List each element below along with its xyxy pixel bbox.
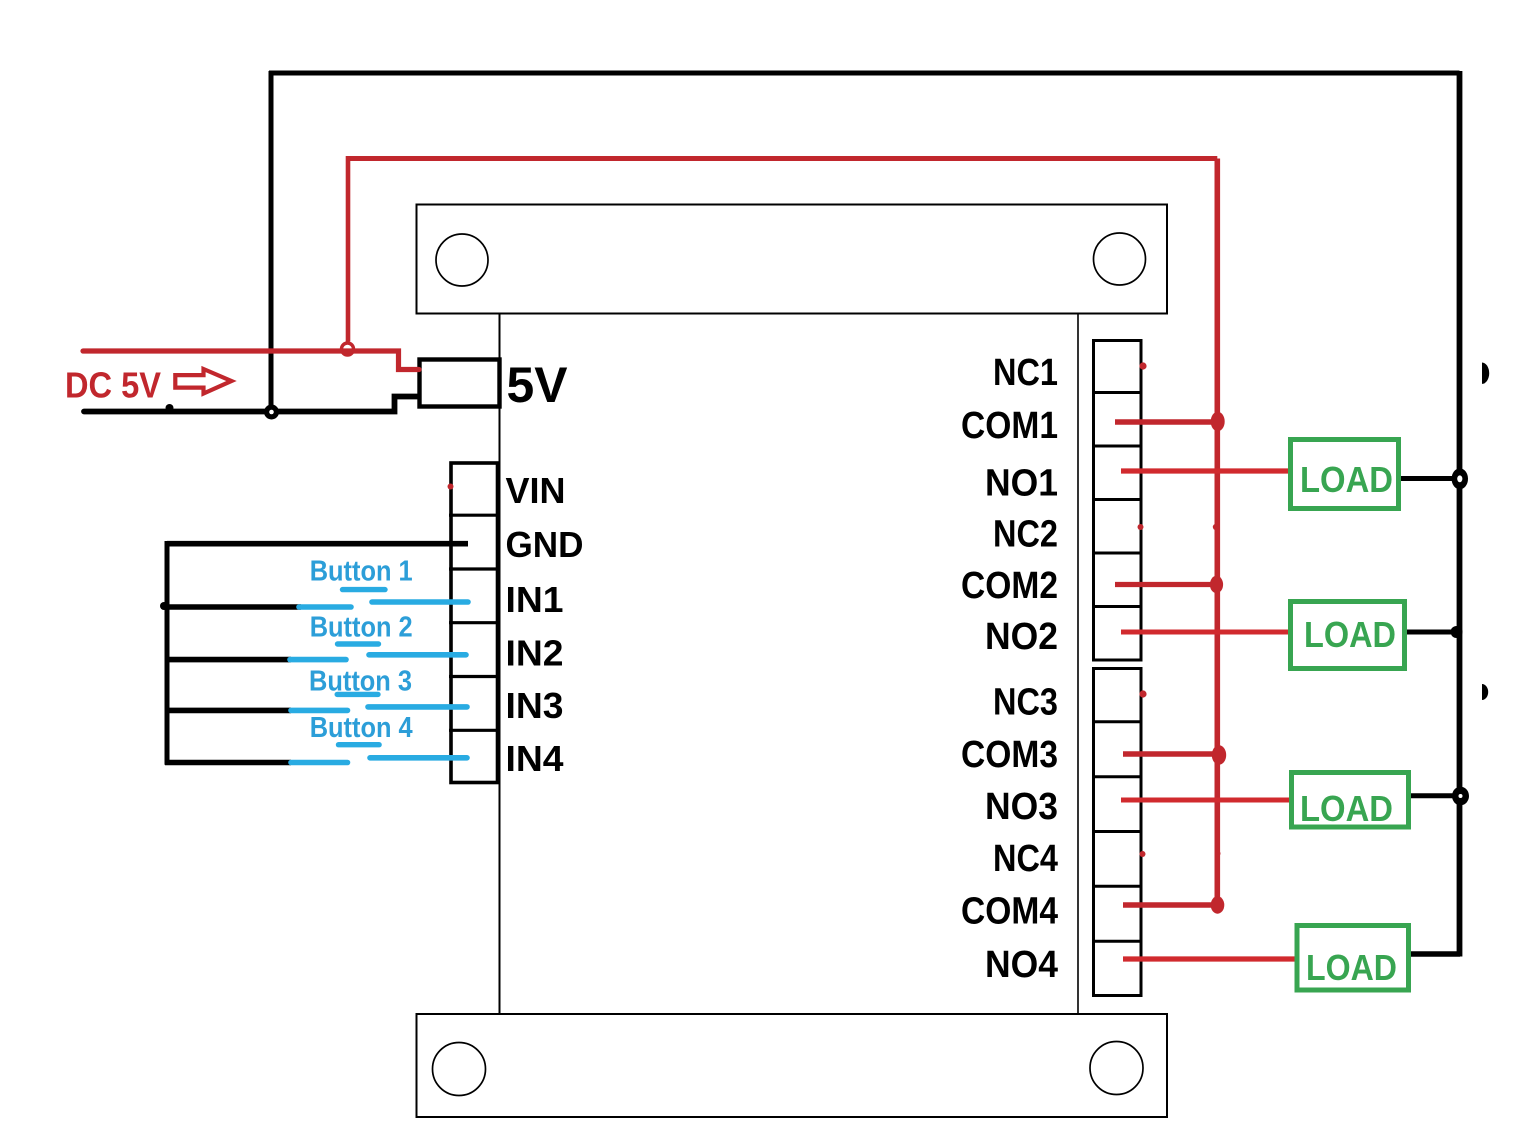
svg-text:NC2: NC2 — [993, 514, 1058, 556]
svg-text:Button 3: Button 3 — [309, 665, 412, 697]
svg-text:LOAD: LOAD — [1300, 459, 1393, 500]
svg-text:NO3: NO3 — [985, 786, 1058, 828]
svg-text:GND: GND — [506, 524, 584, 565]
svg-text:5V: 5V — [507, 357, 569, 413]
svg-text:IN1: IN1 — [506, 579, 564, 620]
svg-text:IN4: IN4 — [506, 738, 564, 779]
svg-text:NO4: NO4 — [985, 944, 1058, 986]
svg-text:COM4: COM4 — [961, 891, 1058, 933]
svg-text:LOAD: LOAD — [1304, 614, 1396, 655]
svg-text:COM1: COM1 — [961, 405, 1058, 447]
svg-text:COM3: COM3 — [961, 734, 1058, 776]
svg-text:NO1: NO1 — [985, 462, 1058, 504]
svg-text:IN2: IN2 — [506, 633, 564, 674]
svg-text:Button 4: Button 4 — [310, 712, 413, 744]
svg-text:VIN: VIN — [506, 470, 566, 511]
svg-text:IN3: IN3 — [506, 685, 564, 726]
svg-text:NO2: NO2 — [985, 616, 1058, 658]
svg-text:NC4: NC4 — [993, 838, 1058, 880]
svg-text:Button 2: Button 2 — [310, 611, 413, 643]
svg-text:Button 1: Button 1 — [310, 555, 413, 587]
svg-text:NC3: NC3 — [993, 682, 1058, 724]
svg-text:COM2: COM2 — [961, 565, 1058, 607]
svg-text:LOAD: LOAD — [1300, 788, 1393, 829]
svg-text:NC1: NC1 — [993, 352, 1058, 394]
svg-text:DC 5V: DC 5V — [65, 365, 161, 406]
svg-text:LOAD: LOAD — [1306, 947, 1397, 988]
